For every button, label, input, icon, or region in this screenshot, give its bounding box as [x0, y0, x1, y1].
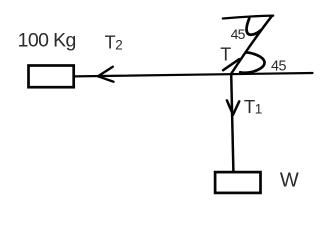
- svg-text:100 Kg: 100 Kg: [18, 29, 76, 51]
- svg-text:45: 45: [231, 26, 246, 42]
- svg-text:W: W: [280, 170, 299, 192]
- svg-text:T: T: [220, 45, 231, 65]
- svg-text:45: 45: [271, 59, 286, 75]
